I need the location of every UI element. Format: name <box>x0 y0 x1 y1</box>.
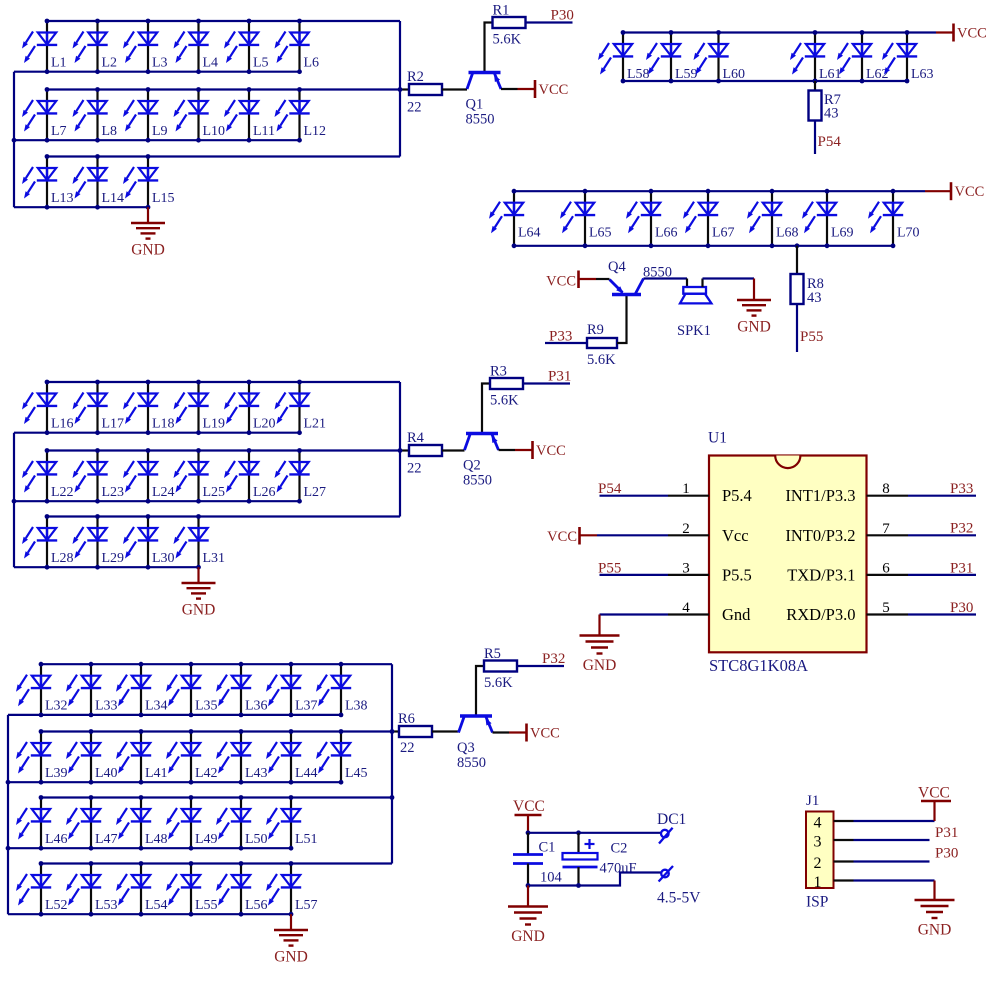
svg-text:L7: L7 <box>51 124 67 139</box>
LED L58 <box>598 33 650 83</box>
LED L22 <box>22 451 74 502</box>
junction dots <box>621 30 910 83</box>
svg-text:L39: L39 <box>45 766 68 781</box>
ground <box>131 223 165 259</box>
svg-text:R1: R1 <box>493 3 510 19</box>
svg-text:L29: L29 <box>102 551 125 566</box>
wire: emitter of Q2 to VCC <box>499 449 533 451</box>
svg-text:VCC: VCC <box>513 798 545 815</box>
svg-text:2: 2 <box>814 855 822 872</box>
power VCC <box>954 24 987 42</box>
wire: collector of Q4 to speaker <box>644 279 688 288</box>
svg-text:6: 6 <box>882 560 890 576</box>
LED L45 <box>316 732 368 783</box>
junction dots <box>12 380 302 570</box>
ground <box>915 900 955 939</box>
wire: cathode bus row 1 <box>8 714 341 716</box>
power VCC <box>527 724 560 742</box>
LED L28 <box>22 517 74 568</box>
wire: anode bus L64-L70 <box>514 190 925 192</box>
svg-text:VCC: VCC <box>957 25 987 41</box>
svg-text:R5: R5 <box>484 646 501 662</box>
svg-text:5.6K: 5.6K <box>587 352 616 368</box>
svg-text:GND: GND <box>918 922 952 939</box>
svg-text:L34: L34 <box>145 699 168 714</box>
transistor Q1 (8550 PNP) <box>466 73 502 128</box>
LED L12 <box>275 90 327 141</box>
svg-text:R3: R3 <box>490 364 507 380</box>
LED L6 <box>275 21 320 72</box>
wire: cathode bus L58-L63 <box>623 80 907 82</box>
J1 pin 4 <box>814 815 854 832</box>
wire: collector of Q3 <box>457 731 459 733</box>
wire: cathode bus row 1 <box>14 432 300 434</box>
svg-text:P31: P31 <box>950 560 973 576</box>
LED L25 <box>174 451 226 502</box>
svg-text:4: 4 <box>682 600 690 616</box>
svg-text:L63: L63 <box>911 67 934 82</box>
wire: base of Q2 to R3 <box>482 384 490 434</box>
LED L26 <box>224 451 276 502</box>
svg-text:3: 3 <box>814 834 822 851</box>
svg-text:L33: L33 <box>95 699 118 714</box>
junction dots <box>512 189 896 248</box>
svg-text:Q2: Q2 <box>463 458 481 474</box>
J1 pin 2 <box>814 855 854 872</box>
svg-text:L28: L28 <box>51 551 74 566</box>
wire: anode bus row 3 <box>41 796 392 798</box>
LED L34 <box>116 664 168 715</box>
svg-text:470uF: 470uF <box>600 861 637 877</box>
svg-text:R6: R6 <box>398 711 415 727</box>
svg-text:22: 22 <box>407 461 422 477</box>
svg-text:R4: R4 <box>407 430 425 446</box>
LED L35 <box>166 664 218 715</box>
svg-text:P33: P33 <box>549 329 572 345</box>
power VCC <box>535 80 568 98</box>
svg-text:GND: GND <box>274 949 308 966</box>
svg-text:P32: P32 <box>542 651 565 667</box>
wire: J1 pin1 to GND <box>854 881 935 901</box>
svg-text:INT1/P3.3: INT1/P3.3 <box>785 486 855 505</box>
wire: left cathode bus vertical <box>7 715 9 914</box>
svg-text:L65: L65 <box>589 226 612 241</box>
svg-text:L41: L41 <box>145 766 168 781</box>
DC1 pin 2 <box>659 866 673 882</box>
svg-text:VCC: VCC <box>539 82 569 98</box>
wire: anode bus row 1 <box>47 381 400 383</box>
LED L62 <box>837 33 889 83</box>
LED L18 <box>123 382 175 433</box>
wire + net label P30 <box>526 8 574 24</box>
resistor R3 <box>490 364 523 409</box>
LED L14 <box>73 157 125 208</box>
svg-text:J1: J1 <box>806 793 819 809</box>
svg-text:L67: L67 <box>712 226 735 241</box>
svg-text:L13: L13 <box>51 191 74 206</box>
svg-text:Q3: Q3 <box>457 740 475 756</box>
LED L57 <box>266 864 318 915</box>
LED L49 <box>166 798 218 849</box>
wire: anode bus row 1 <box>41 663 392 665</box>
wire + net label P55 (U1 pin3) <box>598 560 668 576</box>
svg-text:INT0/P3.2: INT0/P3.2 <box>785 526 855 545</box>
wire: right anode bus vertical <box>391 664 393 863</box>
LED L10 <box>174 90 226 141</box>
svg-text:P55: P55 <box>800 329 823 345</box>
wire: bus to R2 <box>400 88 409 90</box>
LED L63 <box>882 33 934 83</box>
LED L70 <box>868 191 920 246</box>
wire: anode bus row 4 <box>41 862 392 864</box>
LED L16 <box>22 382 74 433</box>
svg-text:L30: L30 <box>152 551 175 566</box>
svg-text:L37: L37 <box>295 699 318 714</box>
power VCC <box>951 182 984 200</box>
svg-text:GND: GND <box>737 319 771 336</box>
U1 pin 5 (RXD/P3.0) <box>786 600 908 624</box>
svg-text:L23: L23 <box>102 485 125 500</box>
power VCC (Q4) <box>546 271 578 290</box>
wire: cap bottoms to DC1 <box>526 873 662 888</box>
wire: base of Q3 to R5 <box>476 666 484 716</box>
svg-text:L68: L68 <box>776 226 799 241</box>
svg-text:8: 8 <box>882 481 890 497</box>
svg-text:L17: L17 <box>102 417 125 432</box>
svg-text:P31: P31 <box>935 825 958 841</box>
svg-text:P31: P31 <box>548 369 571 385</box>
wire + net label P30 (J1 pin2) <box>854 846 959 862</box>
svg-text:L20: L20 <box>253 417 276 432</box>
ground <box>580 636 620 675</box>
wire: anode bus row 1 <box>47 20 400 22</box>
svg-text:L21: L21 <box>304 417 327 432</box>
wire: right anode bus vertical <box>399 21 401 157</box>
LED L21 <box>275 382 327 433</box>
LED L13 <box>22 157 74 208</box>
svg-text:Vcc: Vcc <box>722 526 749 545</box>
svg-text:P30: P30 <box>935 846 958 862</box>
wire: to VCC <box>936 31 954 33</box>
wire: cathode bus row 2 <box>14 139 300 141</box>
svg-text:STC8G1K08A: STC8G1K08A <box>709 656 808 675</box>
LED L55 <box>166 864 218 915</box>
svg-text:1: 1 <box>814 874 822 891</box>
svg-text:L22: L22 <box>51 485 74 500</box>
svg-text:P30: P30 <box>950 600 973 616</box>
svg-text:L2: L2 <box>102 56 118 71</box>
LED L31 <box>174 517 226 568</box>
svg-text:P30: P30 <box>551 8 574 24</box>
wire: collector of Q2 <box>463 449 465 451</box>
LED L41 <box>116 732 168 783</box>
LED L60 <box>694 33 746 83</box>
LED L23 <box>73 451 125 502</box>
connector DC1 <box>657 811 701 907</box>
wire: bus to R4 <box>400 449 409 451</box>
LED L51 <box>266 798 318 849</box>
svg-text:VCC: VCC <box>955 184 985 200</box>
LED L32 <box>16 664 68 715</box>
svg-text:43: 43 <box>824 106 839 122</box>
svg-text:8550: 8550 <box>457 755 486 771</box>
svg-text:L40: L40 <box>95 766 118 781</box>
svg-text:7: 7 <box>882 521 890 537</box>
wire: anode bus row 2 <box>41 730 392 732</box>
svg-text:L56: L56 <box>245 898 268 913</box>
resistor R1 <box>493 3 526 48</box>
resistor R2 <box>407 69 442 116</box>
svg-text:8550: 8550 <box>463 473 492 489</box>
wire: R2 to Q1 collector <box>442 88 467 90</box>
svg-text:P33: P33 <box>950 481 973 497</box>
svg-text:L38: L38 <box>345 699 368 714</box>
svg-text:2: 2 <box>682 521 690 537</box>
wire: U1 pin4 to GND <box>600 615 669 636</box>
LED L56 <box>216 864 268 915</box>
LED L39 <box>16 732 68 783</box>
U1 pin 2 (Vcc) <box>668 521 749 545</box>
svg-text:L64: L64 <box>518 226 541 241</box>
LED L66 <box>626 191 678 246</box>
svg-text:P54: P54 <box>818 134 842 150</box>
svg-text:Q1: Q1 <box>466 97 484 113</box>
wire: base of Q1 to R1 <box>485 23 493 73</box>
U1 pin 1 (P5.4) <box>668 481 752 505</box>
svg-text:TXD/P3.1: TXD/P3.1 <box>787 565 855 584</box>
ground <box>274 930 308 966</box>
svg-text:L69: L69 <box>831 226 854 241</box>
svg-text:L50: L50 <box>245 832 268 847</box>
svg-text:L51: L51 <box>295 832 318 847</box>
wire: VCC node <box>526 830 662 835</box>
LED L65 <box>560 191 612 246</box>
svg-text:L32: L32 <box>45 699 68 714</box>
svg-text:R9: R9 <box>587 322 604 338</box>
svg-text:5: 5 <box>882 600 890 616</box>
wire + net label P33 (U1 pin 8) <box>908 481 976 497</box>
junction dots <box>6 662 344 917</box>
wire: cathode bus row 3 <box>14 566 199 568</box>
svg-text:L53: L53 <box>95 898 118 913</box>
LED L61 <box>790 33 842 83</box>
power VCC (J1) <box>918 785 951 802</box>
wire: GND stem array1 <box>147 207 149 223</box>
wire: anode bus row 3 <box>47 515 400 517</box>
svg-text:L4: L4 <box>203 56 219 71</box>
svg-text:L59: L59 <box>675 67 698 82</box>
svg-text:L52: L52 <box>45 898 68 913</box>
LED L68 <box>747 191 799 246</box>
LED L69 <box>802 191 854 246</box>
wire: R4 to Q2 collector <box>442 449 465 451</box>
LED L67 <box>683 191 735 246</box>
wire: GND stem array2 <box>197 567 199 583</box>
wire: R6 to Q3 collector <box>432 730 459 732</box>
svg-text:L6: L6 <box>304 56 320 71</box>
svg-text:1: 1 <box>682 481 690 497</box>
ground <box>737 300 771 336</box>
svg-text:L9: L9 <box>152 124 168 139</box>
svg-text:P54: P54 <box>598 481 622 497</box>
svg-text:GND: GND <box>583 657 617 674</box>
LED L37 <box>266 664 318 715</box>
IC U1 STC8G1K08A <box>708 430 867 676</box>
resistor R9 <box>587 322 617 368</box>
wire: anode bus row 3 <box>47 155 400 157</box>
U1 pin 7 (INT0/P3.2) <box>785 521 908 545</box>
wire: cathode bus row 3 <box>8 847 291 849</box>
svg-text:L16: L16 <box>51 417 74 432</box>
svg-text:L42: L42 <box>195 766 218 781</box>
svg-text:L48: L48 <box>145 832 168 847</box>
wire: to VCC <box>925 190 951 192</box>
wire: cathode bus row 1 <box>14 71 300 73</box>
svg-text:L44: L44 <box>295 766 318 781</box>
svg-text:L10: L10 <box>203 124 226 139</box>
wire + net label P55 <box>797 304 823 352</box>
power VCC <box>533 441 566 459</box>
junction dots <box>12 19 302 210</box>
svg-text:P5.4: P5.4 <box>722 486 752 505</box>
svg-text:U1: U1 <box>708 430 727 447</box>
svg-text:P5.5: P5.5 <box>722 565 752 584</box>
svg-text:5.6K: 5.6K <box>484 675 513 691</box>
DC1 pin 1 <box>659 828 673 844</box>
ground <box>182 583 216 619</box>
svg-text:L55: L55 <box>195 898 218 913</box>
svg-text:5.6K: 5.6K <box>493 32 522 48</box>
svg-text:VCC: VCC <box>530 725 560 741</box>
LED L20 <box>224 382 276 433</box>
wire + net label P31 (U1 pin 6) <box>908 560 976 576</box>
wire: collector of Q1 <box>466 88 468 90</box>
LED L2 <box>73 21 118 72</box>
transistor Q3 (8550 PNP) <box>457 716 493 771</box>
svg-text:R2: R2 <box>407 69 424 85</box>
LED L8 <box>73 90 118 141</box>
svg-text:L61: L61 <box>819 67 842 82</box>
wire: cathode bus row 3 <box>14 206 148 208</box>
LED L4 <box>174 21 219 72</box>
wire: cathode bus row 2 <box>8 781 341 783</box>
svg-text:L49: L49 <box>195 832 218 847</box>
LED L5 <box>224 21 269 72</box>
wire + net label P31 <box>523 369 571 385</box>
LED L43 <box>216 732 268 783</box>
resistor R4 <box>407 430 442 477</box>
wire: emitter of Q4 to VCC <box>579 278 610 280</box>
svg-text:L57: L57 <box>295 898 318 913</box>
connector J1 (ISP) <box>806 793 834 911</box>
wire: emitter of Q3 to VCC <box>493 731 527 733</box>
svg-text:L58: L58 <box>627 67 650 82</box>
svg-text:L47: L47 <box>95 832 118 847</box>
svg-text:Gnd: Gnd <box>722 605 751 624</box>
LED L48 <box>116 798 168 849</box>
LED L47 <box>66 798 118 849</box>
LED L15 <box>123 157 175 208</box>
svg-text:L66: L66 <box>655 226 678 241</box>
wire + net label P32 <box>517 651 565 667</box>
wire: bus to R6 <box>392 730 399 732</box>
LED L54 <box>116 864 168 915</box>
ground <box>508 907 548 946</box>
svg-text:22: 22 <box>407 100 422 116</box>
svg-text:L8: L8 <box>102 124 118 139</box>
wire: anode bus row 2 <box>47 88 400 90</box>
svg-text:VCC: VCC <box>918 785 950 802</box>
wire: cathode bus row 4 <box>8 913 291 915</box>
U1 pin 3 (P5.5) <box>668 560 752 584</box>
wire + net label P32 (U1 pin 7) <box>908 521 976 537</box>
wire: right anode bus vertical <box>399 382 401 517</box>
svg-text:L19: L19 <box>203 417 226 432</box>
svg-text:GND: GND <box>182 602 216 619</box>
resistor R7 <box>809 81 841 122</box>
svg-text:L27: L27 <box>304 485 327 500</box>
LED L30 <box>123 517 175 568</box>
LED L19 <box>174 382 226 433</box>
wire: speaker to GND <box>703 279 755 301</box>
svg-text:L5: L5 <box>253 56 269 71</box>
svg-text:RXD/P3.0: RXD/P3.0 <box>786 605 855 624</box>
LED L24 <box>123 451 175 502</box>
power VCC (filter caps) <box>513 798 545 833</box>
speaker SPK1 <box>677 287 711 339</box>
capacitor C2 (470uF, polarized) <box>563 833 637 886</box>
svg-text:VCC: VCC <box>547 529 577 545</box>
svg-text:P32: P32 <box>950 521 973 537</box>
LED L33 <box>66 664 118 715</box>
wire: J1 pin4 to VCC <box>854 801 935 821</box>
svg-text:L15: L15 <box>152 191 175 206</box>
svg-text:L43: L43 <box>245 766 268 781</box>
svg-text:8550: 8550 <box>466 112 495 128</box>
svg-text:GND: GND <box>511 928 545 945</box>
wire + net label P31 (J1 pin3) <box>854 825 959 841</box>
svg-text:3: 3 <box>682 560 690 576</box>
LED L38 <box>316 664 368 715</box>
svg-text:L26: L26 <box>253 485 276 500</box>
wire: GND stem array3 <box>290 914 292 930</box>
power VCC (U1 pin2) <box>547 527 668 545</box>
wire: left cathode bus vertical <box>13 72 15 208</box>
svg-text:5.6K: 5.6K <box>490 393 519 409</box>
svg-text:22: 22 <box>400 740 415 756</box>
wire: anode bus L58-L63 <box>623 31 936 33</box>
svg-text:DC1: DC1 <box>657 811 686 828</box>
wire: GND stem caps <box>527 886 529 907</box>
wire: left cathode bus vertical <box>13 433 15 568</box>
svg-text:C2: C2 <box>611 841 628 857</box>
LED L46 <box>16 798 68 849</box>
LED L29 <box>73 517 125 568</box>
svg-text:L24: L24 <box>152 485 175 500</box>
J1 pin 3 <box>814 834 854 851</box>
resistor R5 <box>484 646 517 691</box>
LED L50 <box>216 798 268 849</box>
svg-text:L1: L1 <box>51 56 67 71</box>
capacitor C1 (104) <box>513 833 563 886</box>
LED L17 <box>73 382 125 433</box>
wire: emitter of Q1 to VCC <box>501 88 535 90</box>
resistor R8 <box>791 246 824 306</box>
J1 pin 1 <box>814 874 854 891</box>
resistor R6 <box>398 711 432 756</box>
wire + net label P54 (U1 pin1) <box>598 481 668 497</box>
svg-text:VCC: VCC <box>546 274 576 290</box>
